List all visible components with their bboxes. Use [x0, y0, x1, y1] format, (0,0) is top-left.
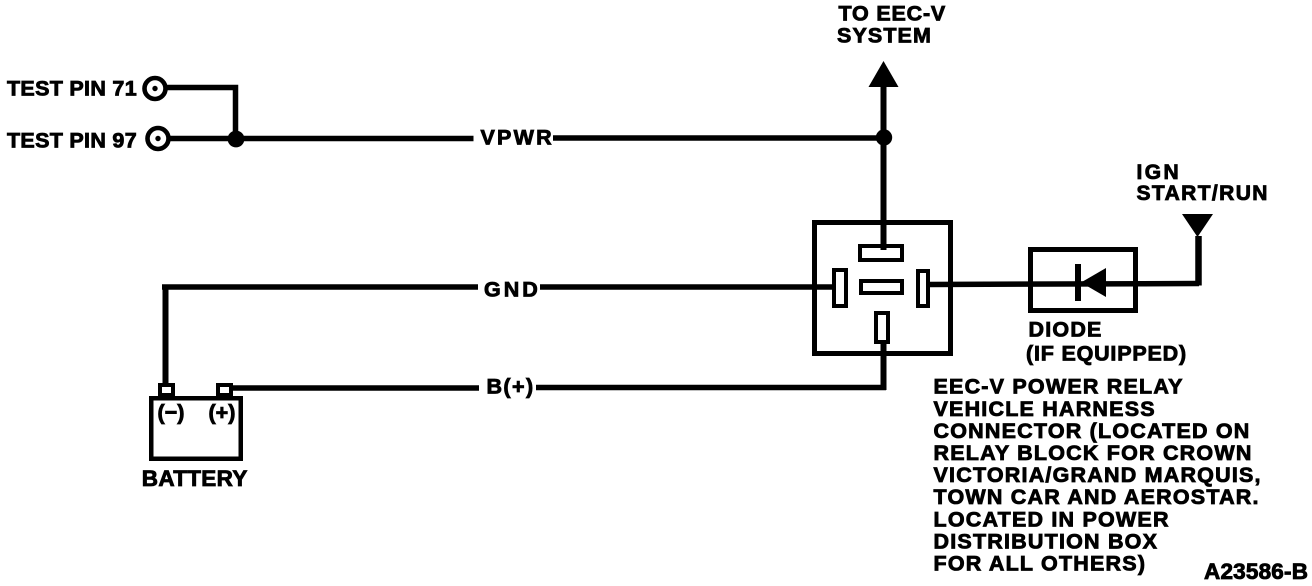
- svg-text:VEHICLE HARNESS: VEHICLE HARNESS: [934, 397, 1156, 421]
- label SYSTEM: [837, 24, 932, 48]
- wire GND vertical to battery: [163, 285, 169, 386]
- battery negative terminal: [160, 385, 173, 395]
- svg-text:B(+): B(+): [487, 375, 535, 399]
- svg-text:TEST PIN 71: TEST PIN 71: [7, 77, 137, 101]
- svg-text:TEST PIN 97: TEST PIN 97: [7, 129, 137, 153]
- wire GND left segment: [162, 284, 478, 290]
- wire B(+) vertical to relay: [881, 342, 887, 390]
- label IGN: [1137, 161, 1182, 184]
- arrow to EEC-V system: [869, 61, 899, 87]
- label (-): [158, 401, 185, 425]
- wire IGN vertical: [1195, 236, 1202, 286]
- svg-text:(−): (−): [158, 401, 185, 425]
- svg-text:IGN: IGN: [1137, 161, 1182, 184]
- svg-text:VICTORIA/GRAND MARQUIS,: VICTORIA/GRAND MARQUIS,: [934, 463, 1262, 487]
- label DIODE: [1029, 318, 1103, 342]
- svg-text:RELAY BLOCK FOR CROWN: RELAY BLOCK FOR CROWN: [934, 441, 1253, 465]
- net label VPWR: [481, 126, 554, 150]
- junction node VPWR / EEC-V: [876, 129, 892, 145]
- svg-text:BATTERY: BATTERY: [142, 466, 248, 491]
- test pin 71 terminal: [145, 78, 166, 99]
- relay pin center (horizontal): [861, 281, 902, 293]
- net label GND: [484, 278, 541, 302]
- svg-text:(+): (+): [209, 401, 236, 425]
- arrow from IGN START/RUN: [1182, 214, 1213, 237]
- battery positive terminal: [218, 385, 231, 395]
- relay connector box: [815, 223, 951, 354]
- svg-text:TOWN CAR AND AEROSTAR.: TOWN CAR AND AEROSTAR.: [934, 485, 1260, 509]
- diode D1: [1078, 264, 1106, 301]
- svg-text:SYSTEM: SYSTEM: [837, 24, 932, 48]
- label TEST PIN 97: [7, 129, 137, 153]
- label BATTERY: [142, 466, 248, 491]
- svg-text:(IF EQUIPPED): (IF EQUIPPED): [1026, 342, 1187, 366]
- wire relay to diode and IGN: [928, 284, 1199, 285]
- wire VPWR left segment: [168, 136, 474, 142]
- svg-text:CONNECTOR (LOCATED ON: CONNECTOR (LOCATED ON: [934, 419, 1251, 443]
- svg-text:START/RUN: START/RUN: [1137, 182, 1269, 205]
- note EEC-V power relay connector location: [934, 375, 1262, 576]
- svg-text:FOR ALL OTHERS): FOR ALL OTHERS): [934, 552, 1147, 576]
- diode box: [1031, 250, 1136, 311]
- svg-text:VPWR: VPWR: [481, 126, 554, 150]
- svg-text:TO EEC-V: TO EEC-V: [839, 2, 947, 26]
- svg-text:DISTRIBUTION BOX: DISTRIBUTION BOX: [934, 529, 1159, 553]
- label START/RUN: [1137, 182, 1269, 205]
- relay pin right (vertical): [918, 271, 928, 306]
- svg-text:GND: GND: [484, 278, 541, 302]
- wire B(+) left segment: [231, 385, 480, 391]
- battery BAT1: [151, 398, 241, 459]
- relay pin top (horizontal): [860, 246, 902, 260]
- test pin 97 terminal: [148, 128, 169, 149]
- figure number A23586-B: [1204, 559, 1308, 584]
- net label B(+): [487, 375, 535, 399]
- wire from test pin 71: [165, 88, 236, 141]
- wire GND right segment into relay: [540, 284, 834, 290]
- relay pin left (vertical): [834, 270, 846, 306]
- label TEST PIN 71: [7, 77, 137, 101]
- svg-text:A23586-B: A23586-B: [1204, 559, 1308, 584]
- wire VPWR right segment: [553, 135, 886, 141]
- svg-text:EEC-V POWER RELAY: EEC-V POWER RELAY: [934, 375, 1184, 399]
- relay pin bottom (vertical): [876, 313, 888, 342]
- wire B(+) right segment: [536, 385, 886, 391]
- wire to EEC-V system: [881, 84, 887, 250]
- svg-text:DIODE: DIODE: [1029, 318, 1103, 342]
- label TO EEC-V: [839, 2, 947, 26]
- label (+): [209, 401, 236, 425]
- label (IF EQUIPPED): [1026, 342, 1187, 366]
- svg-text:LOCATED IN POWER: LOCATED IN POWER: [934, 507, 1170, 531]
- junction node at test pins: [228, 131, 245, 148]
